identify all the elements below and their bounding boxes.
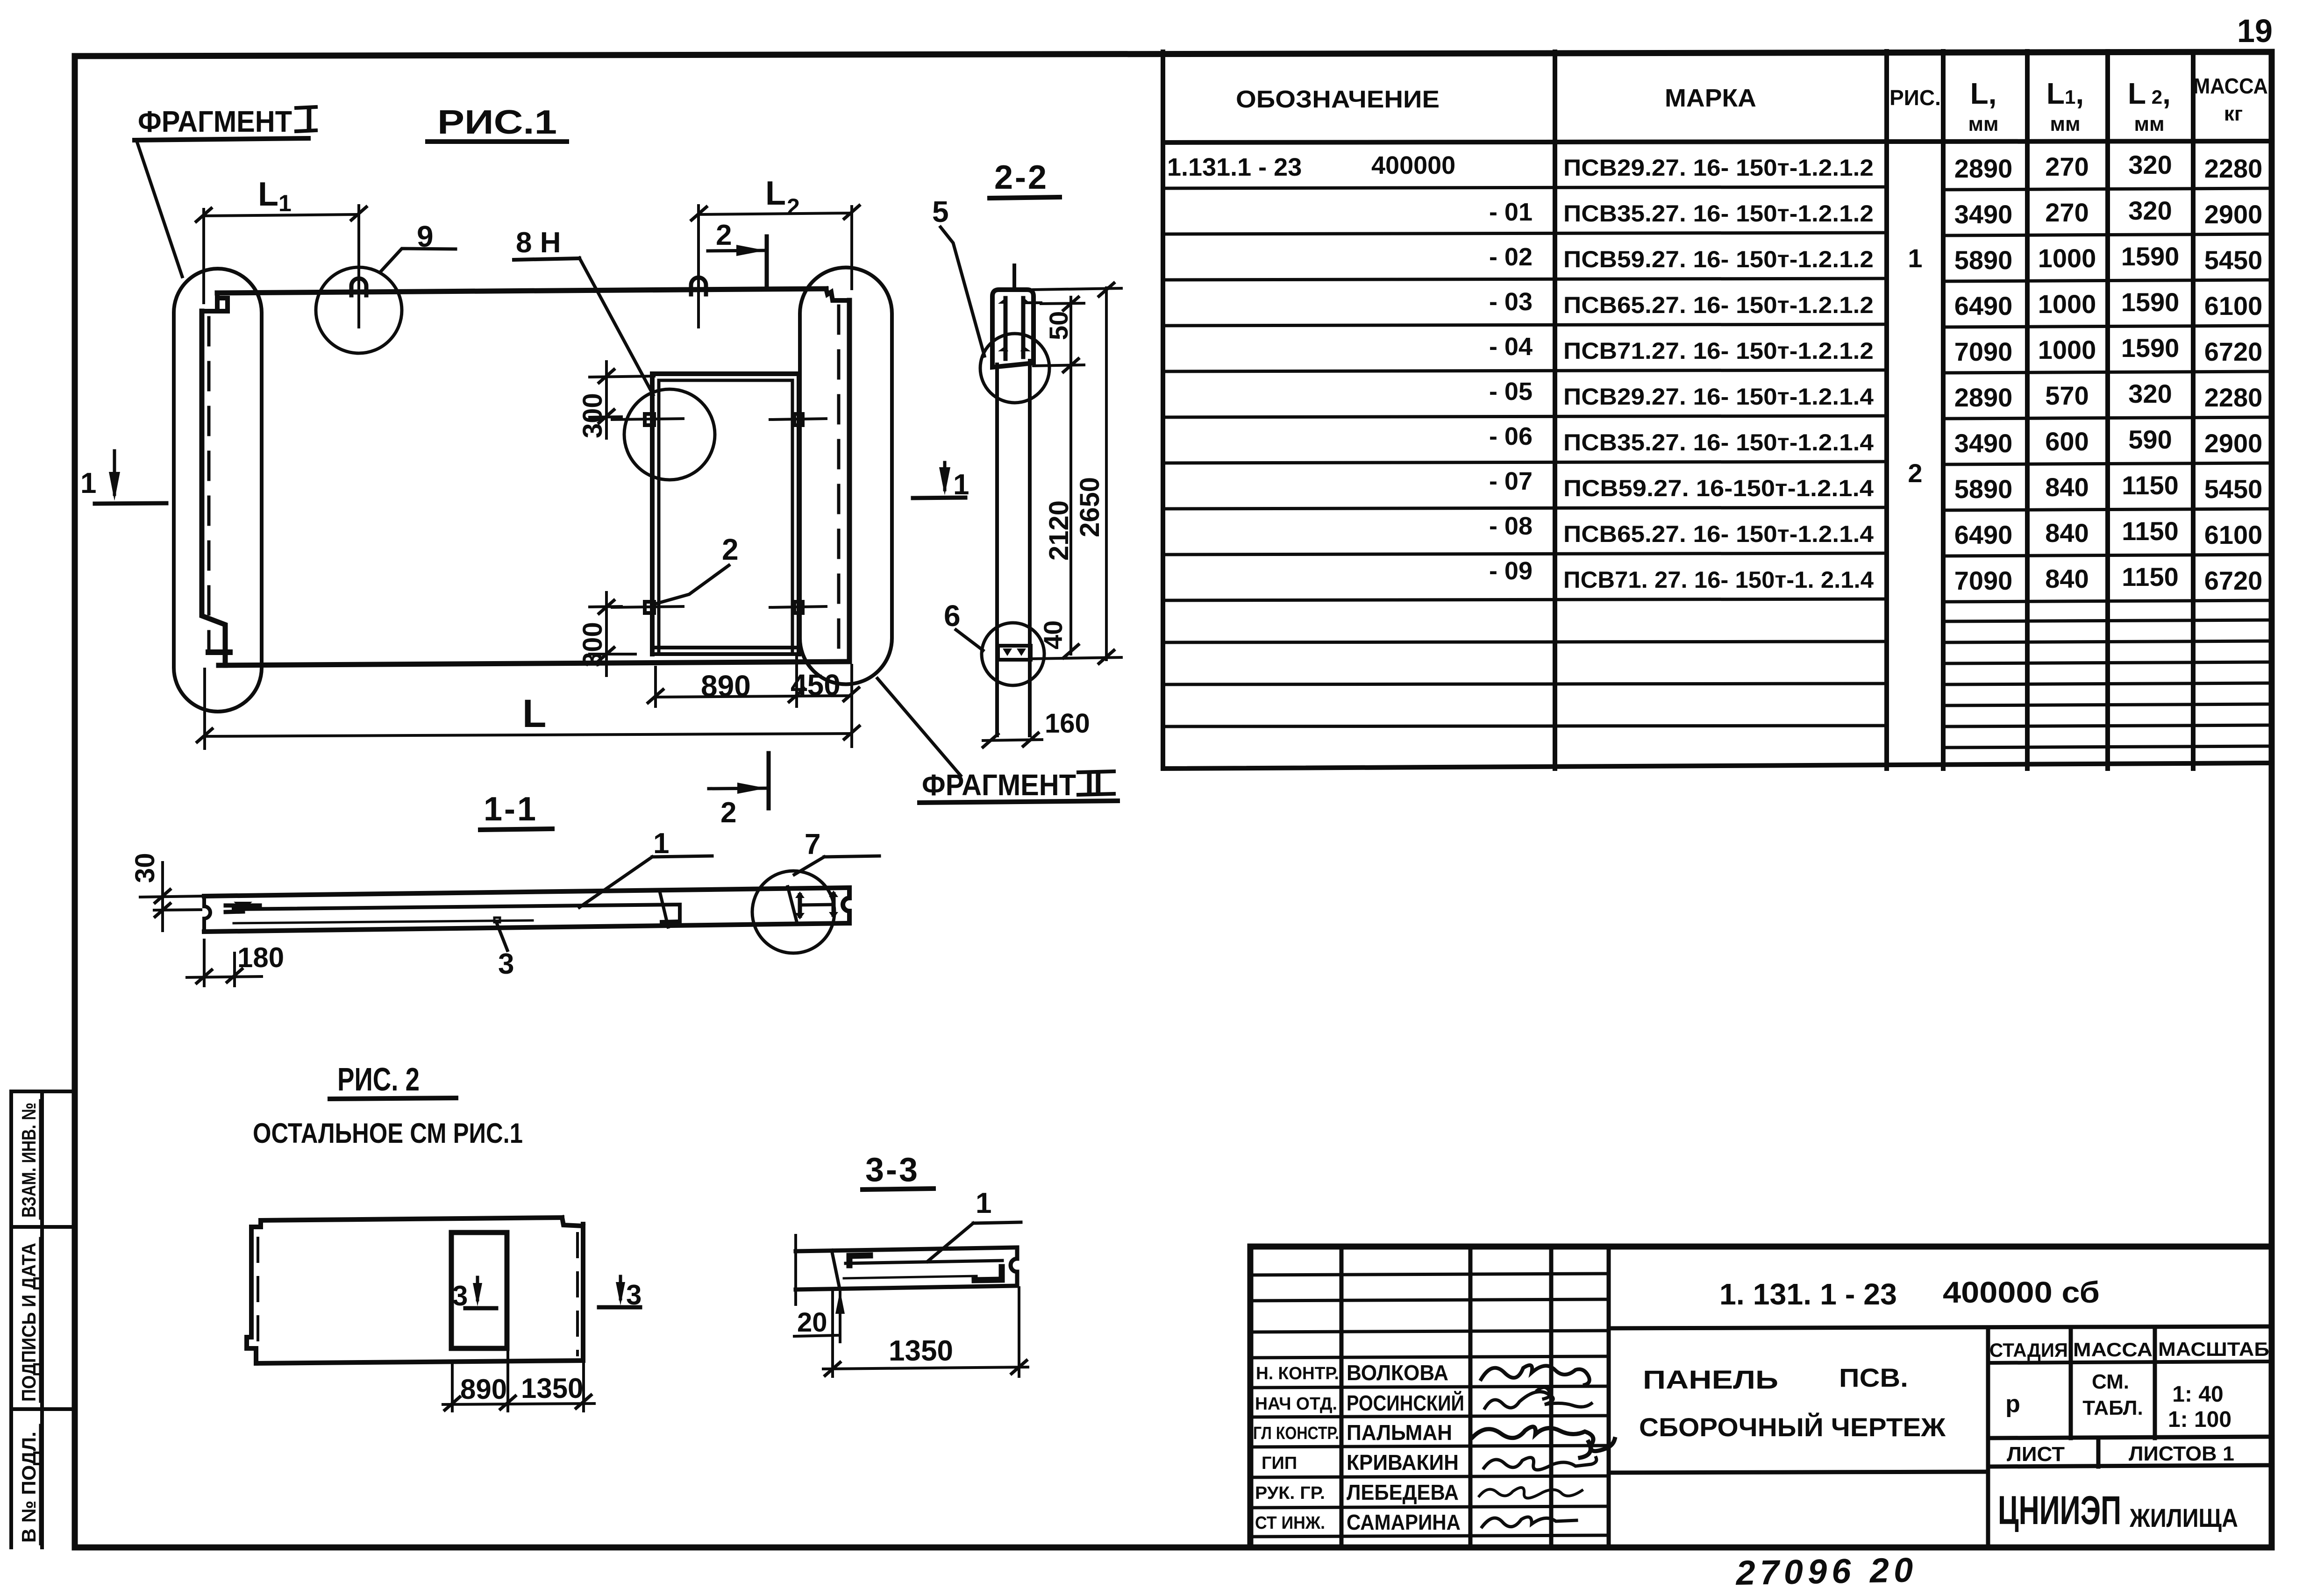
1-1 body left end notch <box>204 896 210 932</box>
svg-text:890: 890 <box>701 669 751 703</box>
fig.2 dim ticks <box>445 1395 591 1410</box>
panel right edge <box>847 300 852 662</box>
fig.2 caption <box>337 1061 420 1097</box>
dim L2 line <box>699 213 852 214</box>
svg-text:840: 840 <box>2045 564 2089 593</box>
svg-text:2280: 2280 <box>2204 383 2263 412</box>
dim 40 text <box>1038 620 1068 649</box>
dim 30 line <box>161 862 164 931</box>
svg-text:40: 40 <box>1038 620 1068 649</box>
3-3 label 1 leader <box>927 1223 973 1261</box>
label 5 <box>932 195 949 228</box>
fig.2 note text <box>253 1118 523 1149</box>
1-1 bar left anchor triangle <box>234 902 252 910</box>
hinge top-right axis <box>770 419 826 420</box>
svg-text:2120: 2120 <box>1044 500 1074 561</box>
svg-text:2900: 2900 <box>2204 200 2263 229</box>
left strip label: Подпись и дата <box>18 1243 40 1402</box>
svg-text:590: 590 <box>2128 425 2172 454</box>
fragment I caption underline <box>135 138 308 140</box>
svg-text:ОБОЗНАЧЕНИЕ: ОБОЗНАЧЕНИЕ <box>1236 86 1440 113</box>
svg-text:РОСИНСКИЙ: РОСИНСКИЙ <box>1347 1391 1464 1415</box>
svg-text:2650: 2650 <box>1075 477 1105 537</box>
dim L2 ticks <box>691 206 859 220</box>
label 8Н <box>516 227 561 259</box>
table col sep ОБОЗНАЧЕНИЕ/МАРКА <box>1553 52 1557 769</box>
parts table grid <box>1163 51 2272 769</box>
title block vertical: right section <box>1986 1327 1990 1547</box>
svg-text:МАССА,: МАССА, <box>2193 74 2274 98</box>
svg-text:5890: 5890 <box>1954 245 2013 275</box>
svg-text:2-2: 2-2 <box>994 159 1048 196</box>
3-3 dim 1350 line <box>823 1367 1028 1369</box>
dim L1 line <box>204 214 359 216</box>
svg-text:ГИП: ГИП <box>1262 1454 1297 1473</box>
lifting loop left <box>351 278 366 295</box>
svg-text:L: L <box>258 176 278 213</box>
table row rule 2 <box>1163 233 2272 235</box>
table row rule 8 <box>1163 507 2272 510</box>
dim 300 upper text <box>577 393 608 438</box>
svg-text:- 06: - 06 <box>1489 422 1533 450</box>
svg-text:450: 450 <box>791 668 841 702</box>
fig.2 cut 3 inside arrow <box>476 1277 479 1300</box>
detail circle 9 <box>316 267 402 353</box>
section 3-3 caption <box>865 1151 920 1189</box>
table bottom rule <box>1163 763 2272 769</box>
table header bottom rule <box>1163 141 2272 143</box>
title block sheet row bottom rule <box>1988 1465 2272 1467</box>
title block role texts <box>1253 1364 1339 1533</box>
signature Лебедева <box>1479 1488 1582 1498</box>
label 8Н underline <box>514 258 579 260</box>
svg-text:- 04: - 04 <box>1489 333 1533 361</box>
svg-text:3490: 3490 <box>1954 428 2013 458</box>
door opening inner lines <box>659 380 792 651</box>
svg-text:1: 1 <box>953 469 969 501</box>
fig.2 cut 3 inside arrowhead <box>473 1283 482 1306</box>
svg-text:300: 300 <box>577 393 608 438</box>
title block doc number rule <box>1609 1326 2272 1328</box>
svg-text:САМАРИНА: САМАРИНА <box>1347 1510 1461 1534</box>
2-2 bottom anchor plate <box>998 646 1031 660</box>
section cut 1 left text <box>80 467 96 499</box>
detail circle 6 <box>982 623 1044 685</box>
section 3-3 caption underline <box>863 1189 934 1190</box>
svg-text:1350: 1350 <box>889 1335 953 1367</box>
panel bottom edge <box>219 662 849 665</box>
dim 890/450 line <box>656 696 851 697</box>
1-1 right end edge with notch <box>843 888 849 923</box>
1-1 item 3 dot <box>494 918 500 922</box>
handwritten archive number <box>1735 1550 1918 1589</box>
svg-text:ВОЛКОВА: ВОЛКОВА <box>1347 1361 1448 1385</box>
svg-text:5890: 5890 <box>1954 474 2013 504</box>
svg-text:СТАДИЯ: СТАДИЯ <box>1989 1339 2068 1361</box>
left strip label: Взам. инв. № <box>18 1103 40 1218</box>
dim 180 ticks <box>197 969 242 983</box>
fragment I capsule <box>174 269 262 712</box>
svg-text:- 09: - 09 <box>1489 557 1533 585</box>
title block stage header verticals <box>2071 1329 2155 1438</box>
3-3 body top edge <box>796 1247 1017 1251</box>
svg-text:мм: мм <box>2134 113 2164 135</box>
svg-text:кг: кг <box>2224 102 2243 125</box>
svg-text:890: 890 <box>460 1374 507 1405</box>
dim 300 upper line <box>605 362 608 438</box>
svg-text:L,: L, <box>1970 77 1997 110</box>
1-1 reinforcement bar (item 1) <box>234 905 680 922</box>
title block vertical: date col <box>1607 1247 1611 1547</box>
svg-text:2: 2 <box>1908 458 1922 488</box>
1-1 right anchor marks <box>800 894 834 916</box>
3-3 dim 1350 text <box>889 1335 953 1367</box>
3-3 label 1 <box>976 1187 991 1219</box>
section cut 2 upper bar <box>765 236 769 286</box>
fragment I caption <box>138 102 314 138</box>
label 2 (hinge) <box>722 533 739 566</box>
svg-text:180: 180 <box>237 942 284 973</box>
1-1 break slant right (in circle 7) <box>788 887 797 923</box>
dim 300 lower text <box>577 622 608 667</box>
3-3 dim 1350 ticks <box>825 1361 1027 1375</box>
svg-text:- 03: - 03 <box>1489 288 1533 316</box>
3-3 inner lower wire <box>844 1276 977 1278</box>
fig.2 dim 890 text <box>460 1374 507 1405</box>
fig.2 dim 1350 text <box>521 1373 583 1404</box>
svg-text:- 08: - 08 <box>1489 512 1533 540</box>
fig.2 panel top-left corner <box>251 1220 261 1227</box>
dim 450 text <box>791 668 841 702</box>
dim 300 upper ticks <box>599 370 614 423</box>
table row rule 1 <box>1163 187 2272 190</box>
svg-text:ЦНИИЭП: ЦНИИЭП <box>1998 1488 2121 1533</box>
svg-text:РУК. ГР.: РУК. ГР. <box>1255 1483 1325 1503</box>
svg-text:мм: мм <box>1968 113 1998 135</box>
hinge bottom-right axis <box>770 606 826 607</box>
fig.2 door opening <box>451 1233 507 1348</box>
lifting loop right <box>691 278 706 294</box>
dim 2650 line <box>1105 288 1108 660</box>
svg-text:2: 2 <box>716 219 732 251</box>
svg-text:ПСВ59.27. 16- 150т-1.2.1.2: ПСВ59.27. 16- 150т-1.2.1.2 <box>1563 246 1874 272</box>
fig.2 dim extensions <box>452 1350 584 1411</box>
svg-text:МАРКА: МАРКА <box>1665 84 1756 112</box>
dim 160 ticks <box>983 733 1038 747</box>
svg-text:300: 300 <box>577 622 608 667</box>
detail circle 5 <box>980 334 1049 403</box>
table row rule 4 <box>1163 324 2272 327</box>
table col sep МАРКА/РИС <box>1884 51 1889 769</box>
svg-text:1000: 1000 <box>2038 289 2096 319</box>
dim L2 extension lines <box>699 206 852 289</box>
svg-text:840: 840 <box>2045 472 2089 502</box>
svg-text:ПСВ.: ПСВ. <box>1839 1363 1908 1392</box>
svg-text:400000 сб: 400000 сб <box>1943 1275 2100 1309</box>
svg-text:ЛИСТОВ 1: ЛИСТОВ 1 <box>2129 1442 2234 1465</box>
fig.2 panel bottom edge <box>256 1361 583 1363</box>
section cut 1 right mark bar <box>913 498 965 498</box>
panel top-right corner step <box>826 289 849 300</box>
3-3 body bottom edge <box>796 1286 1017 1290</box>
lifting loop left axis <box>357 279 360 327</box>
svg-text:В № ПОДЛ.: В № ПОДЛ. <box>18 1432 40 1543</box>
title block vertical: sign col <box>1549 1247 1554 1547</box>
fragment I numeral serifs <box>296 107 316 131</box>
svg-text:3: 3 <box>626 1279 642 1311</box>
svg-text:ГЛ КОНСТР.: ГЛ КОНСТР. <box>1253 1424 1339 1443</box>
svg-text:6490: 6490 <box>1954 291 2013 321</box>
svg-text:840: 840 <box>2045 518 2089 548</box>
dim L1 text <box>258 176 292 216</box>
svg-text:- 05: - 05 <box>1489 378 1533 406</box>
section 2-2 caption underline <box>990 197 1060 198</box>
svg-text:320: 320 <box>2128 196 2172 225</box>
svg-text:270: 270 <box>2045 198 2089 227</box>
2-2 top anchor loop stem <box>1012 265 1016 290</box>
detail circle 8Н <box>624 389 715 480</box>
section cut 1 right arrow <box>943 463 947 490</box>
dim 2120 tick bottom <box>1063 645 1078 658</box>
3-3 label 1 tail <box>973 1222 1021 1223</box>
svg-text:160: 160 <box>1045 708 1090 739</box>
dim 30 ticks <box>155 890 170 917</box>
fig.1 caption <box>437 104 557 141</box>
section cut 2 lower arrowhead <box>737 783 766 794</box>
svg-text:6490: 6490 <box>1954 520 2013 549</box>
svg-text:1-1: 1-1 <box>484 791 538 828</box>
svg-text:2: 2 <box>720 797 736 829</box>
svg-text:1150: 1150 <box>2122 470 2179 500</box>
svg-text:5450: 5450 <box>2204 245 2263 275</box>
svg-text:СТ ИНЖ.: СТ ИНЖ. <box>1255 1513 1325 1533</box>
signature Самарина <box>1482 1517 1576 1527</box>
2-2 bottom anchor triangles <box>1003 648 1026 656</box>
title block name cell rule <box>1609 1472 1988 1473</box>
signature Волкова <box>1481 1365 1590 1385</box>
label 2 leader <box>656 565 729 604</box>
svg-text:ВЗАМ. ИНВ. №: ВЗАМ. ИНВ. № <box>18 1103 40 1218</box>
dim 890/450 extension lines <box>656 656 797 706</box>
title block org name <box>1998 1488 2238 1533</box>
dim 2650 text <box>1075 477 1105 537</box>
left strip label underline <box>39 1425 42 1544</box>
svg-text:400000: 400000 <box>1371 151 1455 179</box>
title block sheet row divider <box>2096 1438 2101 1467</box>
title block sheet texts <box>2007 1442 2234 1466</box>
svg-text:1: 1 <box>653 827 669 860</box>
table numeric values <box>1954 150 2263 595</box>
svg-text:L: L <box>765 175 786 212</box>
door opening bottom lines <box>652 648 799 654</box>
table row rule 10 <box>1163 599 2272 602</box>
svg-text:РИС.1: РИС.1 <box>437 104 557 141</box>
svg-text:6100: 6100 <box>2204 291 2263 321</box>
svg-text:2890: 2890 <box>1954 383 2013 412</box>
dim 180 text <box>237 942 284 973</box>
svg-text:7: 7 <box>805 828 820 861</box>
fig.2 cut 3 mark inside: text <box>452 1280 468 1311</box>
dim 2650 ticks <box>1099 283 1114 663</box>
section cut 2 upper mark <box>708 250 765 251</box>
3-3 bar left hook <box>849 1255 870 1265</box>
section 1-1 caption <box>484 791 538 828</box>
svg-text:1150: 1150 <box>2122 562 2179 591</box>
svg-text:ПОДПИСЬ И ДАТА: ПОДПИСЬ И ДАТА <box>18 1243 40 1402</box>
svg-text:6720: 6720 <box>2204 566 2263 595</box>
fig.2 panel left inner dashes <box>257 1238 259 1341</box>
section cut 1 left arrow <box>113 451 116 494</box>
svg-text:1.131.1 - 23: 1.131.1 - 23 <box>1167 153 1302 181</box>
dim 2650 extension bottom <box>1032 657 1121 659</box>
section 2-2 caption <box>994 159 1048 196</box>
hinge mark top-left <box>645 414 654 425</box>
2-2 top anchor bars <box>1005 298 1023 359</box>
dim 890 text <box>701 669 751 703</box>
svg-text:1590: 1590 <box>2121 242 2180 271</box>
panel top edge <box>217 289 826 293</box>
left strip label underline <box>39 1238 42 1402</box>
table col sep РИС/L <box>1941 51 1946 769</box>
svg-text:270: 270 <box>2045 152 2089 181</box>
svg-text:ПСВ29.27. 16- 150т-1.2.1.4: ПСВ29.27. 16- 150т-1.2.1.4 <box>1563 384 1874 410</box>
fig.2 dim 890/1350 line <box>443 1404 594 1404</box>
left strip label: В № подл. <box>18 1432 40 1543</box>
svg-text:ПАЛЬМАН: ПАЛЬМАН <box>1347 1420 1452 1445</box>
table col sep L1/L2 <box>2105 51 2110 769</box>
svg-text:570: 570 <box>2045 381 2089 410</box>
3-3 dim 20 underline <box>794 1335 837 1336</box>
svg-text:1: 40: 1: 40 <box>2172 1382 2223 1407</box>
svg-text:50: 50 <box>1044 311 1073 340</box>
svg-text:ПСВ29.27. 16- 150т-1.2.1.2: ПСВ29.27. 16- 150т-1.2.1.2 <box>1563 155 1874 181</box>
svg-text:3490: 3490 <box>1954 200 2013 229</box>
title block name texts <box>1347 1361 1464 1534</box>
1-1 body top edge <box>204 888 849 896</box>
dim 300 lower ticks <box>599 600 614 661</box>
section cut 1 right arrowhead <box>939 467 950 495</box>
title block doc number text <box>1719 1275 2100 1311</box>
1-1 break slant left <box>660 891 668 927</box>
svg-text:ФРАГМЕНТ: ФРАГМЕНТ <box>138 105 292 138</box>
dim 890/450 ticks <box>648 688 859 703</box>
svg-text:ПАНЕЛЬ: ПАНЕЛЬ <box>1643 1365 1778 1394</box>
table col sep L/L1 <box>2025 51 2030 769</box>
hinge mark bottom-left (item 2) <box>645 602 654 613</box>
table row rule 3 <box>1163 278 2272 281</box>
svg-text:2: 2 <box>722 533 739 566</box>
svg-text:1150: 1150 <box>2122 516 2179 546</box>
signature Росинский <box>1485 1387 1591 1408</box>
section cut 2 upper arrowhead <box>736 245 765 256</box>
3-3 inner bar <box>846 1261 1002 1263</box>
svg-text:ЛЕБЕДЕВА: ЛЕБЕДЕВА <box>1347 1480 1459 1504</box>
svg-text:1: 1 <box>1908 243 1922 273</box>
svg-text:ПСВ65.27. 16- 150т-1.2.1.2: ПСВ65.27. 16- 150т-1.2.1.2 <box>1563 292 1874 318</box>
dim L2 text <box>765 175 800 220</box>
dim L text <box>522 691 546 735</box>
left strip label underline <box>39 1100 42 1218</box>
svg-text:5: 5 <box>932 195 949 228</box>
3-3 dim 20 line <box>839 1292 841 1342</box>
section cut 2 upper text <box>716 219 732 251</box>
left stamp strip border <box>11 1091 75 1547</box>
svg-text:19: 19 <box>2237 13 2273 49</box>
dim 300 upper extensions <box>590 376 654 417</box>
svg-text:3: 3 <box>498 948 514 980</box>
panel top-left corner notch <box>202 293 228 311</box>
detail circle 7 <box>752 871 834 953</box>
title block stage header underline <box>1988 1361 2272 1363</box>
svg-text:мм: мм <box>2050 113 2080 135</box>
svg-text:ПСВ71.27. 16- 150т-1.2.1.2: ПСВ71.27. 16- 150т-1.2.1.2 <box>1563 338 1874 364</box>
section cut 2 lower text <box>720 797 736 829</box>
svg-text:РИС.: РИС. <box>1889 86 1941 110</box>
section cut 2 lower mark <box>709 788 766 789</box>
fig.2 cut 3 inside bar <box>465 1306 496 1311</box>
title block thin top rows <box>1250 1274 1609 1358</box>
svg-text:ОСТАЛЬНОЕ СМ РИС.1: ОСТАЛЬНОЕ СМ РИС.1 <box>253 1118 523 1149</box>
svg-text:ПСВ71. 27. 16- 150т-1. 2.1.4: ПСВ71. 27. 16- 150т-1. 2.1.4 <box>1563 567 1874 593</box>
lifting loop right axis <box>697 278 700 327</box>
dim 30 extensions <box>140 896 201 910</box>
3-3 break slant <box>832 1250 840 1289</box>
dim 50 ticks <box>1063 297 1078 372</box>
svg-text:3-3: 3-3 <box>865 1151 920 1189</box>
section 1-1 caption underline <box>480 829 552 830</box>
hinge mark bottom-right <box>794 602 803 613</box>
fragment II caption <box>922 766 1103 802</box>
title block named row rules <box>1250 1386 1609 1537</box>
label 3 leader <box>497 924 507 950</box>
title block drawing name line 2 <box>1639 1412 1946 1442</box>
svg-text:1: 100: 1: 100 <box>2168 1407 2231 1432</box>
section cut 1 right text <box>953 469 969 501</box>
section cut 1 left arrowhead <box>109 472 120 501</box>
svg-text:ПСВ65.27. 16- 150т-1.2.1.4: ПСВ65.27. 16- 150т-1.2.1.4 <box>1563 521 1874 547</box>
svg-text:1000: 1000 <box>2038 335 2096 364</box>
section cut 2 lower bar <box>767 753 771 808</box>
svg-text:1590: 1590 <box>2121 287 2180 317</box>
svg-text:- 07: - 07 <box>1489 467 1533 495</box>
title block stage values <box>2005 1370 2231 1432</box>
dim 50 text <box>1044 311 1073 340</box>
title block drawing name line 1 <box>1643 1363 1908 1394</box>
svg-text:ЖИЛИЩА: ЖИЛИЩА <box>2129 1503 2238 1532</box>
svg-text:Н. КОНТР.: Н. КОНТР. <box>1256 1364 1339 1383</box>
svg-text:7090: 7090 <box>1954 337 2013 366</box>
svg-text:600: 600 <box>2045 427 2089 456</box>
title block stage header texts <box>1989 1338 2269 1361</box>
label 7 leader <box>794 857 824 875</box>
table left edge <box>1161 52 1165 769</box>
svg-text:1590: 1590 <box>2121 333 2180 363</box>
svg-text:2900: 2900 <box>2204 428 2263 458</box>
fig.2 panel left edge <box>247 1227 256 1363</box>
label 7 <box>805 828 820 861</box>
fig.2 cut 3 right bar <box>599 1305 640 1310</box>
section cut 1 left mark bar <box>95 503 166 504</box>
svg-text:2280: 2280 <box>2204 154 2263 183</box>
svg-text:- 01: - 01 <box>1489 198 1533 226</box>
svg-text:1: 1 <box>80 467 96 499</box>
1-1 right anchor arrowheads <box>795 891 838 919</box>
dim 50 extensions <box>1034 288 1121 366</box>
title block outer box <box>1250 1247 2272 1547</box>
svg-text:6100: 6100 <box>2204 520 2263 549</box>
table row rule 7 <box>1163 462 2272 464</box>
label 6 leader <box>956 630 983 650</box>
